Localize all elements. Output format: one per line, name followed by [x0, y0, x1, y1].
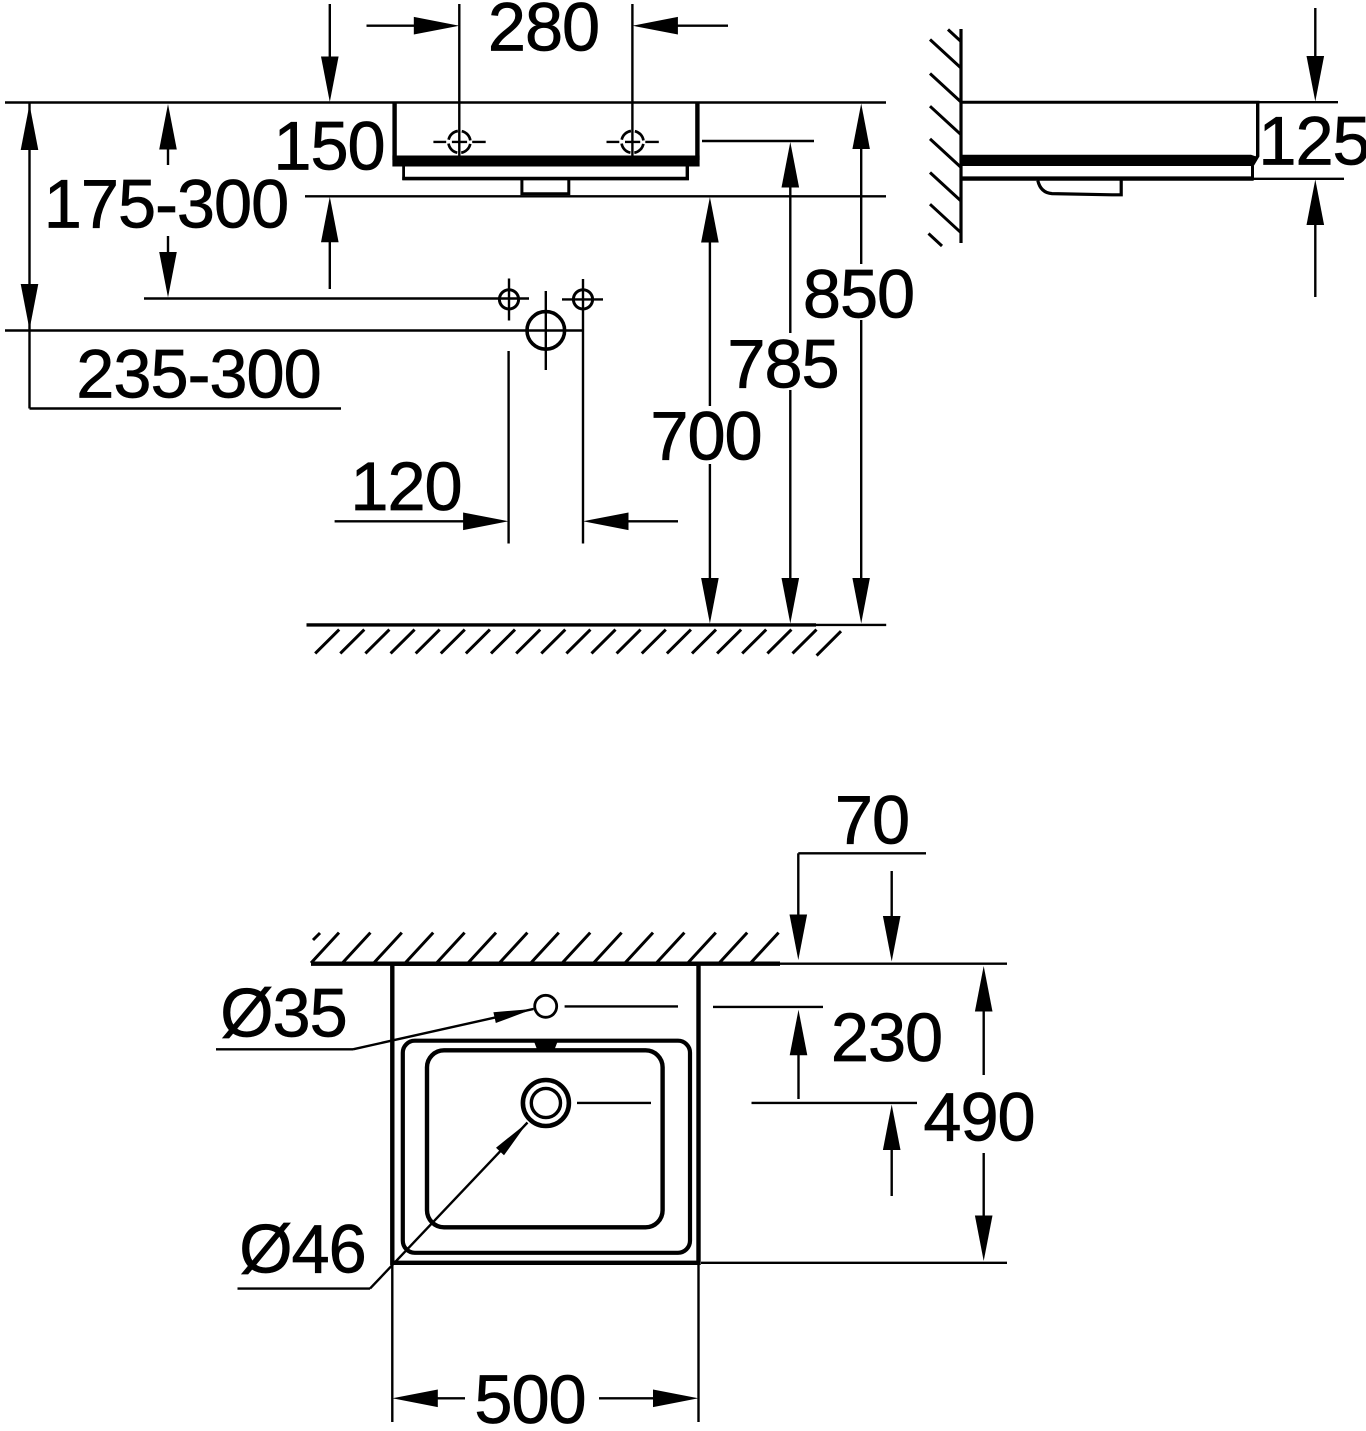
wire faucet hole axis line [565, 1005, 678, 1007]
wire extension to 125 dim top [1260, 101, 1339, 103]
dimension 235-300: vertical line + arrows at x=29.5 [28, 103, 30, 409]
svg-text:490: 490 [923, 1079, 1034, 1156]
dimension 230 [891, 871, 893, 917]
wire wall line front view [5, 101, 886, 104]
drain lip side [1038, 181, 1121, 195]
dimension 70 [798, 852, 926, 854]
wall hatching plan [311, 933, 779, 963]
basin under-rim line side [960, 176, 1253, 180]
basin lower body box [402, 166, 405, 180]
wire extension basin front edge to 490 dim [701, 1262, 1007, 1264]
wall line plan [311, 962, 780, 966]
dimension 850: line + arrows [852, 104, 870, 150]
dimension 280: extension lines [458, 4, 460, 156]
wire extension line faucet-hole level right [702, 140, 814, 142]
wire extension line 235-300 bottom (drain axis) [5, 329, 584, 331]
supply pipe circle left [499, 290, 518, 309]
dimension 500 [391, 1265, 393, 1422]
wire leader under 235-300 text [30, 407, 342, 409]
svg-text:235-300: 235-300 [76, 336, 320, 413]
ground hatching [315, 630, 841, 656]
svg-text:Ø46: Ø46 [239, 1211, 365, 1288]
ground line [307, 623, 817, 626]
basin ceramic rim band (filled) [392, 156, 699, 167]
basin right edge side [1252, 102, 1258, 167]
drain circles plan [523, 1080, 569, 1126]
faucet hole symbol left (dashed circle + centerlines) [433, 131, 485, 153]
basin top line side [961, 101, 1260, 104]
dimension 125: line + arrows [1314, 8, 1316, 57]
wire supply left lower extension [507, 351, 509, 544]
wall line side view [959, 29, 962, 243]
svg-text:175-300: 175-300 [44, 166, 288, 243]
dimension 280: dim line + arrows [367, 25, 418, 27]
basin outer rect plan [392, 964, 698, 1263]
svg-text:700: 700 [650, 398, 761, 475]
wire drain axis line [577, 1102, 651, 1104]
supply pipe circle right [573, 290, 592, 309]
basin bowl rounded rect plan [427, 1050, 663, 1227]
overflow notch plan [534, 1041, 558, 1049]
faucet hole symbol right (dashed circle + centerlines) [607, 131, 659, 153]
basin bottom line side + extension to 125 dim [1253, 178, 1344, 180]
basin body outline front [392, 103, 396, 161]
svg-text:280: 280 [488, 0, 599, 66]
drain pipe circle center [527, 312, 565, 350]
faucet hole circle plan [535, 995, 557, 1017]
basin rim band side (filled) [960, 155, 1258, 166]
basin rim rounded rect plan [403, 1041, 690, 1253]
svg-text:500: 500 [474, 1361, 585, 1431]
dimension 120: dim line + arrows [335, 520, 466, 522]
svg-text:Ø35: Ø35 [220, 975, 346, 1052]
svg-text:230: 230 [831, 999, 942, 1076]
drain stub under basin [520, 180, 570, 194]
wire extension line 175-300 bottom [144, 297, 529, 299]
dimension 175-300: arrows at x=168 [159, 104, 177, 150]
dimension 150: arrows outside at x=330 [329, 4, 331, 58]
svg-text:850: 850 [803, 256, 914, 333]
svg-text:150: 150 [273, 108, 384, 185]
dimension 785: line + arrows [782, 142, 800, 188]
dimension 490 [975, 966, 993, 1012]
svg-text:125: 125 [1258, 103, 1366, 180]
wire extension line under basin (150 bottom / 700 top) [305, 195, 886, 197]
wall hatching side [929, 30, 962, 247]
svg-text:785: 785 [727, 326, 838, 403]
svg-text:120: 120 [350, 448, 461, 525]
dimension 700: line + arrows [701, 197, 719, 243]
svg-text:70: 70 [835, 782, 909, 859]
